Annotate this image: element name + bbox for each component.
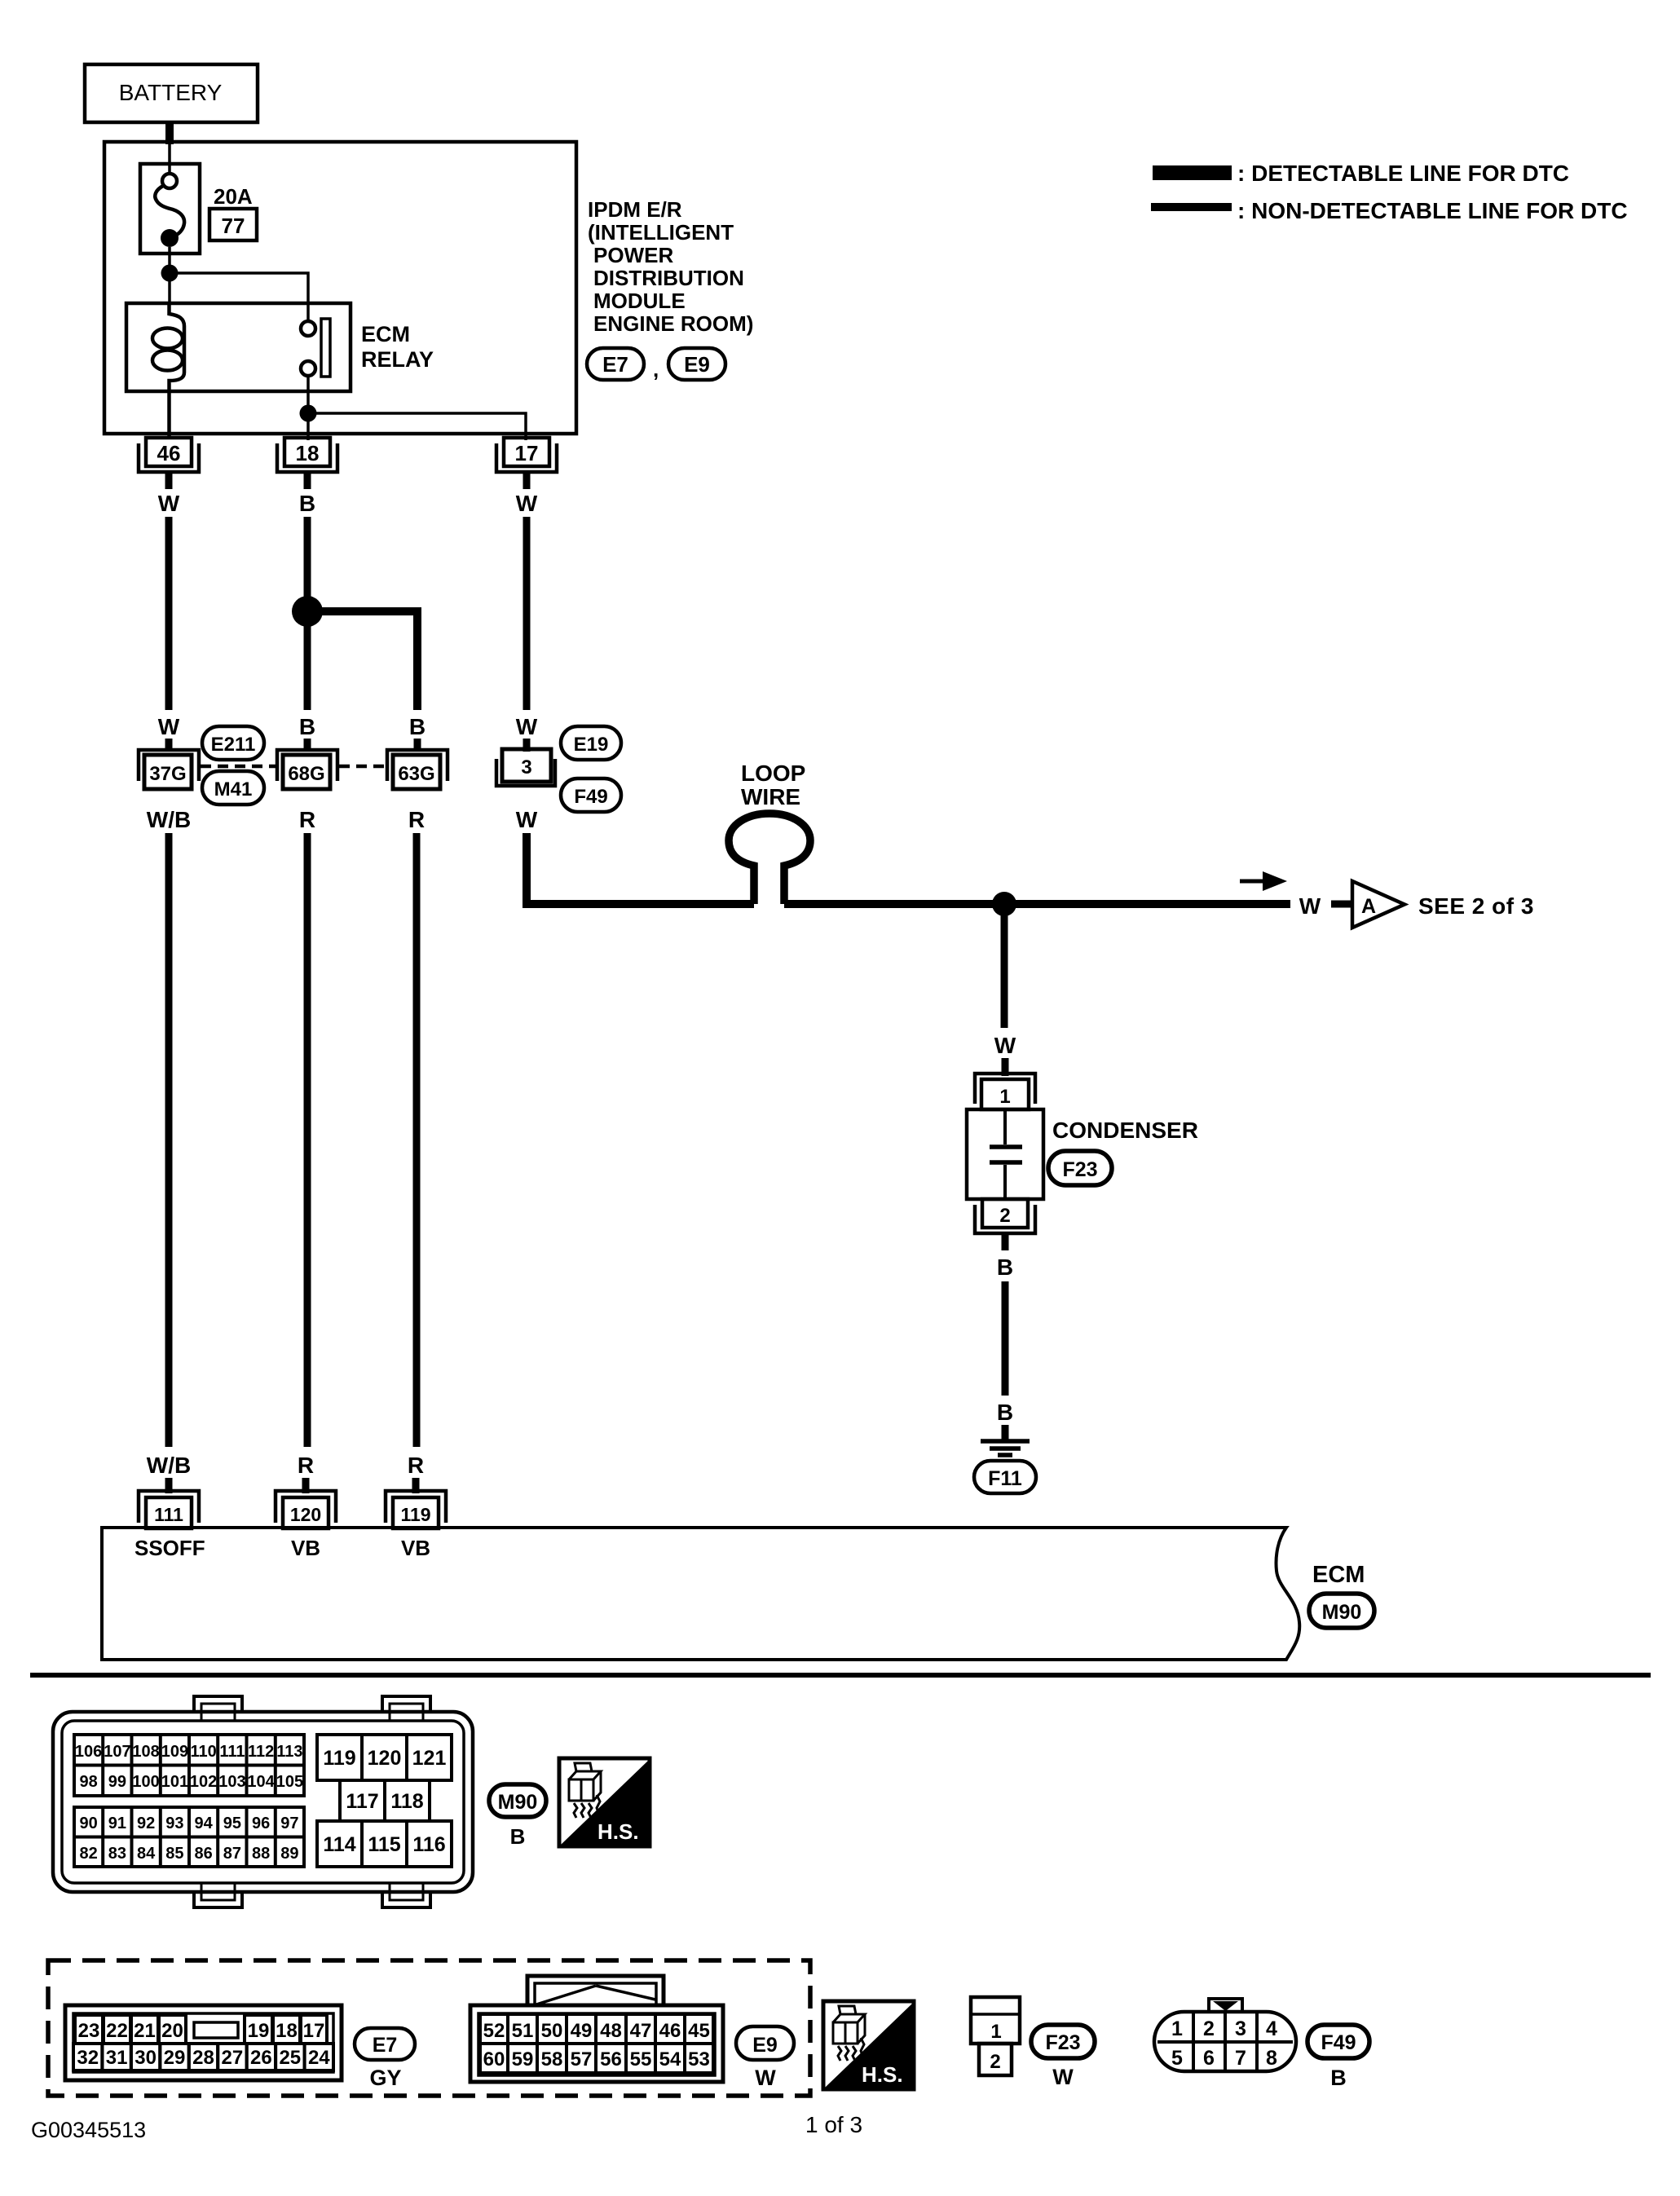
stub into 63G [414,739,421,752]
pin 17 [496,438,557,472]
svg-text:1: 1 [999,1086,1010,1108]
junction below fuse [161,265,179,282]
svg-text:B: B [299,491,315,516]
svg-text:95: 95 [223,1815,241,1832]
connector oval E19 [561,726,621,760]
svg-text:114: 114 [323,1833,355,1856]
svg-text:91: 91 [108,1815,126,1832]
svg-text:119: 119 [400,1504,430,1525]
svg-text:20: 20 [161,2020,183,2042]
svg-text:G00345513: G00345513 [31,2118,146,2142]
svg-text:R: R [298,1453,314,1478]
wire stub under pin 17 [523,472,531,489]
svg-text:R: R [299,807,315,832]
svg-text:26: 26 [250,2047,272,2069]
connector oval F23 view label [1031,2025,1095,2089]
svg-text:104: 104 [247,1773,275,1791]
svg-text:23: 23 [78,2020,100,2042]
svg-text:W: W [516,491,538,516]
svg-text:109: 109 [161,1743,188,1761]
svg-text:51: 51 [512,2020,534,2042]
svg-text:: DETECTABLE LINE FOR DTC: : DETECTABLE LINE FOR DTC [1237,161,1569,186]
svg-text:88: 88 [252,1845,270,1863]
svg-text:E9: E9 [752,2034,778,2057]
connector oval F11 [974,1461,1036,1493]
svg-text:120: 120 [368,1747,402,1770]
wire R long run 68G [304,833,311,1447]
svg-text:E7: E7 [602,352,628,377]
svg-text:105: 105 [276,1773,303,1791]
connector view F23 [971,1997,1020,2075]
svg-text:111: 111 [219,1743,245,1761]
svg-text:2: 2 [1203,2017,1215,2040]
svg-text:52: 52 [483,2020,505,2042]
connector view M90 body [53,1696,473,1907]
svg-text:30: 30 [134,2047,157,2069]
connector oval E7 view label [355,2028,415,2090]
svg-text:M90: M90 [1322,1601,1362,1624]
svg-text:3: 3 [1235,2017,1246,2040]
svg-text:IPDM E/R: IPDM E/R [588,197,682,222]
svg-text:118: 118 [390,1790,423,1813]
svg-text:17: 17 [303,2020,325,2042]
wire R long run 63G [413,833,421,1447]
svg-text:5: 5 [1171,2047,1183,2070]
legend detectable line [1153,161,1569,186]
svg-text:1: 1 [1171,2017,1183,2040]
stub into pin 120 [302,1478,310,1493]
wire battery to fuse [168,121,171,174]
svg-text:22: 22 [106,2020,128,2042]
battery [85,64,258,122]
svg-text:24: 24 [308,2047,330,2069]
wire branch to 63G [307,611,417,710]
svg-text:89: 89 [280,1845,298,1863]
svg-text:116: 116 [412,1833,445,1856]
svg-text:60: 60 [483,2048,505,2070]
svg-text:W: W [755,2066,776,2090]
svg-text:121: 121 [412,1747,447,1770]
M90 pin grid lower-left [74,1807,304,1867]
svg-text:112: 112 [248,1743,274,1761]
svg-text:F23: F23 [1045,2031,1080,2054]
svg-text:4: 4 [1266,2017,1277,2040]
svg-text:63G: 63G [398,763,434,785]
svg-text:W: W [1299,893,1321,919]
svg-text:GY: GY [369,2066,401,2090]
ECM pin 119 [386,1491,446,1528]
dashed link 37G-68G [201,765,276,769]
svg-text:18: 18 [296,441,320,465]
svg-text:82: 82 [79,1845,97,1863]
stub into condenser pin 1 [1002,1058,1009,1076]
svg-text:98: 98 [79,1773,97,1791]
svg-text:F49: F49 [574,786,607,808]
svg-text:87: 87 [223,1845,241,1863]
svg-text:120: 120 [290,1504,321,1525]
wire junction to relay contact [170,273,308,321]
svg-text:LOOP: LOOP [741,761,805,786]
svg-text:50: 50 [541,2020,563,2042]
condenser F23 [967,1109,1043,1199]
svg-text:25: 25 [279,2047,301,2069]
connector view E7 [65,2005,342,2080]
svg-text:58: 58 [541,2048,563,2070]
svg-text:48: 48 [600,2020,622,2042]
svg-text:49: 49 [571,2020,593,2042]
svg-text:W: W [516,714,538,739]
connector oval E9 [668,348,725,380]
svg-text:E19: E19 [574,734,609,756]
svg-text:E7: E7 [373,2034,398,2057]
ECM pin 120 [276,1491,336,1528]
ECM box M90 [102,1528,1299,1660]
svg-text:119: 119 [323,1747,355,1770]
M90 pin grid upper-left [74,1735,304,1796]
svg-text:R: R [408,1453,424,1478]
svg-text:90: 90 [79,1815,97,1832]
wire junction to condenser [1001,904,1008,1028]
wire relay to junction 18 [306,376,310,440]
svg-text:28: 28 [192,2047,214,2069]
svg-text:100: 100 [132,1773,159,1791]
svg-text:WIRE: WIRE [741,784,800,809]
svg-text:F23: F23 [1062,1158,1097,1181]
M90 pin grid right [317,1735,452,1867]
svg-text:115: 115 [368,1833,400,1856]
wire B down to 68G [304,517,311,710]
svg-text:W/B: W/B [147,1453,191,1478]
wire W down to connector 3 [523,517,531,710]
svg-text:B: B [510,1824,526,1849]
svg-text:CONDENSER: CONDENSER [1052,1118,1198,1143]
svg-text:68G: 68G [288,763,324,785]
wire W down to 37G [165,517,173,710]
wire fuse to junction [168,247,171,303]
svg-text:DISTRIBUTION: DISTRIBUTION [593,266,744,290]
svg-text:6: 6 [1203,2047,1215,2070]
fuse 20A 77 [140,164,257,254]
connector view E9 [470,1976,723,2082]
svg-text:ECM: ECM [361,322,410,346]
svg-text:SSOFF: SSOFF [134,1536,205,1560]
stub into connector 3 [523,739,531,752]
svg-text:W: W [158,491,180,516]
svg-text:21: 21 [134,2020,156,2042]
condenser pin 1 [975,1074,1035,1109]
svg-text:7: 7 [1235,2047,1246,2070]
connector 68G [277,750,337,789]
svg-text:E9: E9 [684,352,710,377]
svg-text:17: 17 [515,441,539,465]
svg-text:2: 2 [999,1205,1010,1227]
svg-text:R: R [408,807,425,832]
svg-text:W: W [994,1033,1016,1058]
wire W to loop [527,833,754,904]
svg-text:117: 117 [346,1790,378,1813]
svg-text:31: 31 [106,2047,128,2069]
svg-text:111: 111 [154,1504,183,1525]
svg-text:3: 3 [521,756,531,778]
connector 37G [139,750,199,789]
svg-text:83: 83 [108,1845,126,1863]
ECM relay [126,303,434,438]
junction on B wire [292,596,323,627]
svg-text:108: 108 [132,1743,159,1761]
svg-text:W: W [1052,2065,1074,2089]
svg-text:(INTELLIGENT: (INTELLIGENT [588,220,734,245]
svg-text:B: B [299,714,315,739]
svg-text:POWER: POWER [593,243,673,267]
stub into 37G [165,739,173,752]
svg-text:86: 86 [194,1845,212,1863]
svg-text:VB: VB [291,1536,320,1560]
svg-text:84: 84 [137,1845,156,1863]
connector oval M90 ref [1309,1594,1374,1628]
legend non-detectable line [1151,198,1628,223]
svg-text:96: 96 [252,1815,270,1832]
wire loop to A [784,900,1290,908]
ECM pin 111 [139,1491,199,1528]
junction below relay [300,405,317,422]
wire stub under pin 18 [304,472,311,489]
svg-text:32: 32 [77,2047,99,2069]
svg-text:MODULE: MODULE [593,289,686,313]
svg-text:27: 27 [222,2047,244,2069]
svg-text:101: 101 [161,1773,188,1791]
svg-text:92: 92 [137,1815,155,1832]
wire W/B long run [165,833,173,1447]
svg-text:55: 55 [630,2048,652,2070]
pin 18 [277,438,337,472]
H.S. symbol near M90 [559,1758,650,1846]
connector view F49 [1154,1999,1296,2071]
arrow toward A [1240,871,1287,891]
condenser pin 2 [975,1199,1035,1233]
label LOOP WIRE [741,761,805,809]
junction at condenser tap [992,892,1016,916]
svg-text:18: 18 [276,2020,298,2042]
svg-text:: NON-DETECTABLE LINE FOR DTC: : NON-DETECTABLE LINE FOR DTC [1237,198,1628,223]
connector oval M90 view label [489,1784,546,1849]
IPDM E/R box E7 E9 [104,142,576,434]
svg-text:45: 45 [688,2020,710,2042]
connector oval F49 [561,778,621,812]
stub into 68G [304,739,311,752]
svg-text:47: 47 [630,2020,652,2042]
svg-text:,: , [653,357,659,381]
divider line [30,1673,1651,1678]
svg-text:E211: E211 [211,734,256,756]
connector oval E7 [587,348,659,381]
svg-text:RELAY: RELAY [361,347,434,372]
wire stub before A [1331,901,1351,908]
svg-text:29: 29 [164,2047,186,2069]
svg-text:20A: 20A [214,184,253,209]
svg-text:B: B [409,714,426,739]
svg-text:ENGINE ROOM): ENGINE ROOM) [593,311,753,336]
svg-text:53: 53 [688,2048,710,2070]
svg-text:46: 46 [157,441,181,465]
H.S. symbol near E7 E9 [823,2001,914,2089]
svg-text:106: 106 [75,1743,102,1761]
svg-text:A: A [1361,895,1376,918]
svg-text:W/B: W/B [147,807,191,832]
svg-text:97: 97 [280,1815,298,1832]
svg-text:F49: F49 [1321,2031,1356,2054]
stub into pin 111 [165,1478,173,1493]
svg-text:103: 103 [218,1773,245,1791]
svg-text:B: B [997,1255,1013,1280]
svg-text:37G: 37G [149,763,186,785]
dashed group frame E7 E9 [48,1960,810,2096]
connector 63G [387,750,448,789]
svg-text:BATTERY: BATTERY [119,80,223,105]
connector oval E211 [202,726,264,760]
svg-text:102: 102 [190,1773,217,1791]
svg-text:113: 113 [276,1743,302,1761]
svg-text:77: 77 [222,214,245,238]
svg-text:8: 8 [1266,2047,1277,2070]
svg-text:M90: M90 [498,1791,538,1814]
svg-text:85: 85 [165,1845,183,1863]
ground F11 [981,1425,1030,1455]
off-page triangle A [1352,881,1404,928]
svg-text:M41: M41 [214,778,253,800]
svg-text:ECM: ECM [1312,1562,1365,1588]
connector oval M41 [202,771,264,805]
svg-text:46: 46 [659,2020,681,2042]
svg-text:107: 107 [104,1743,130,1761]
loop wire [729,814,810,904]
wire stub under pin 46 [165,472,173,489]
svg-text:F11: F11 [988,1467,1022,1490]
stub below condenser [1002,1233,1009,1250]
svg-text:SEE 2 of 3: SEE 2 of 3 [1418,893,1534,919]
svg-text:56: 56 [600,2048,622,2070]
svg-text:2: 2 [990,2051,1000,2073]
svg-text:19: 19 [248,2020,270,2042]
pin 46 [139,438,199,472]
stub into pin 119 [412,1478,420,1493]
svg-text:B: B [997,1400,1013,1425]
svg-text:54: 54 [659,2048,681,2070]
svg-text:57: 57 [571,2048,593,2070]
svg-text:1: 1 [990,2021,1001,2043]
svg-text:94: 94 [194,1815,213,1832]
svg-text:W: W [158,714,180,739]
connector oval F23 [1048,1151,1112,1185]
wire junction to pin 17 [308,413,526,440]
svg-text:59: 59 [512,2048,534,2070]
connector oval F49 view label [1307,2025,1369,2090]
wire B to ground [1002,1281,1009,1396]
svg-text:93: 93 [165,1815,183,1832]
dashed link 68G-63G [339,765,386,769]
svg-text:B: B [1330,2066,1347,2090]
svg-text:W: W [516,807,538,832]
connector oval E9 view label [736,2026,794,2090]
svg-text:99: 99 [108,1773,126,1791]
svg-text:VB: VB [401,1536,430,1560]
connector 3 [496,749,555,786]
svg-text:110: 110 [190,1743,216,1761]
svg-text:1 of 3: 1 of 3 [805,2112,862,2137]
IPDM E/R label [588,197,753,336]
